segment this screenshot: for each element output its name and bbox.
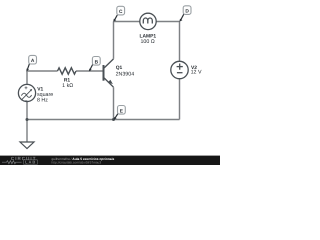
junction dot emitter/bottom rail [112, 118, 115, 121]
wire V1 bottom to ground [26, 102, 28, 142]
svg-text:D: D [185, 9, 189, 15]
svg-text:Q1: Q1 [116, 65, 123, 71]
source V1 [18, 84, 35, 101]
source V1 labels [37, 86, 53, 103]
lamp LAMP1 labels [140, 33, 157, 45]
svg-text:A: A [31, 58, 35, 64]
source V1 arrow head [30, 89, 33, 92]
ground [20, 142, 34, 149]
source V2 labels [191, 65, 202, 76]
svg-text:1 kΩ: 1 kΩ [62, 83, 73, 89]
svg-text:8 Hz: 8 Hz [37, 98, 48, 104]
wire node A to resistor [27, 70, 58, 72]
source V1 minus [25, 100, 28, 102]
wire emitter down [113, 87, 115, 119]
svg-text:http://circuitlab.com/c6xr5fr5: http://circuitlab.com/c6xr5fr57mau3 [52, 161, 102, 165]
transistor Q1 labels [116, 65, 135, 77]
source V2 [171, 61, 188, 78]
footer logo LAB [23, 160, 37, 165]
wire resistor to base [76, 70, 103, 72]
source V1 plus [25, 86, 28, 89]
node A [26, 55, 36, 71]
svg-text:LAB: LAB [25, 160, 36, 165]
wire V1 top [26, 71, 28, 84]
junction dot left rail [26, 118, 29, 121]
node E [114, 106, 126, 120]
wire right vertical upper [179, 22, 181, 62]
svg-text:12 V: 12 V [191, 70, 202, 76]
wire collector up [113, 22, 115, 59]
footer logo resistor zigzag [2, 161, 22, 164]
wire bottom rail [27, 119, 180, 121]
svg-text:100 Ω: 100 Ω [140, 39, 154, 45]
node B [89, 57, 100, 72]
svg-text:B: B [95, 59, 99, 65]
resistor R1 labels [62, 77, 73, 89]
svg-text:2N3904: 2N3904 [116, 71, 135, 77]
wire top rail left [114, 21, 140, 23]
wire top rail right [156, 21, 179, 23]
footer bar [0, 156, 220, 165]
wire right vertical lower [179, 79, 181, 120]
transistor Q1 [104, 59, 114, 87]
node C [113, 6, 124, 21]
node D [179, 6, 191, 22]
lamp LAMP1 [140, 13, 156, 29]
transistor Q1 emitter arrow [108, 80, 113, 84]
svg-text:C: C [119, 9, 123, 15]
resistor R1 [58, 68, 77, 74]
